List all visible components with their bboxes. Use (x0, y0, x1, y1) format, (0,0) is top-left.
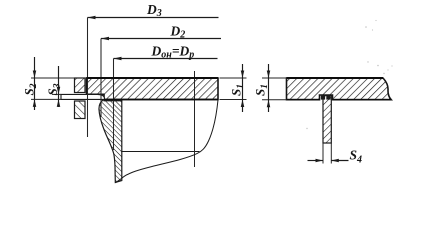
svg-text:Dон=Dр: Dон=Dр (151, 44, 195, 61)
